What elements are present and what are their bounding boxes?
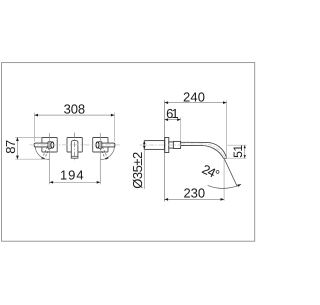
spout aerator line [71,155,78,157]
center spout escutcheon square [67,138,82,153]
svg-text:51: 51 [231,145,245,158]
left phantom lever end cap [41,157,45,160]
left handle cap ellipse [51,142,54,148]
right handle escutcheon square [93,138,108,153]
right handle hub [99,142,102,149]
svg-text:194: 194 [60,167,84,182]
spout neck [169,142,174,148]
side view pipe centerline [140,144,182,146]
right handle rotated position (dashed phantom lever) [100,147,107,158]
24 degree angle arc [208,184,241,188]
spout tube axis centerline [181,144,225,159]
svg-text:61: 61 [166,106,179,121]
right handle cap ellipse [96,142,99,148]
right phantom lever end cap [105,157,109,160]
supply pipe stub [144,141,164,150]
svg-text:Ø35±2: Ø35±2 [130,152,145,189]
dimension 87 extension lines [15,136,41,138]
svg-text:87: 87 [3,140,18,154]
spout outlet end face [224,158,227,160]
right handle rotation arc [100,146,115,159]
left handle centerline / 194 extension line [49,133,51,184]
right handle centerline / 194 extension line [99,133,101,184]
center spout tube (front view) [71,140,78,158]
right lever handle bar [101,143,115,147]
spout tube outer wall [181,142,227,158]
left handle rotated position (dashed phantom lever) [43,147,50,158]
left handle hub [48,142,51,149]
dimension 240 line [165,102,227,104]
dimension 51 line [244,145,246,158]
horizontal centerline through faucet bodies [30,144,121,146]
dimension 230 line [165,198,225,200]
left handle rotation arc [35,146,50,159]
dimension 87 line [16,137,18,159]
spout tube inner wall [181,146,224,159]
left handle escutcheon square [42,138,57,153]
svg-text:230: 230 [184,186,206,201]
dimension 61 extension line (right) [180,118,182,142]
left lever handle bar [34,143,48,147]
drawing frame border [2,63,255,242]
spout hub block [173,141,180,148]
spout centerline (vertical, center) [74,133,76,162]
dimension 240 extension line (right, to spout tip) [226,100,228,158]
dimension 194 line [50,181,101,183]
dimension Ø35±2 line with arrows at pipe [143,141,145,189]
dimension 308 extension lines [33,113,35,142]
svg-text:308: 308 [64,101,86,116]
dimension 61 line [165,119,181,121]
wall flange escutcheon (side) [165,138,169,153]
dimension 51 extension lines [227,144,246,146]
24 degree reference line (spout outlet direction) [224,159,237,187]
230 extension / angle vertical reference line [223,159,225,201]
wall face line / common extension [164,100,166,201]
dimension 308 line [34,114,114,116]
svg-text:240: 240 [183,89,205,104]
